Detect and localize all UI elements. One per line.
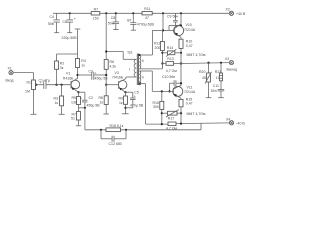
svg-text:R7: R7 (94, 8, 99, 12)
node V10 base column (162, 12, 164, 14)
ground under R1 (31, 113, 37, 115)
svg-text:3к: 3к (60, 66, 64, 70)
transformer secondary II upper (138, 30, 163, 69)
svg-text:10: 10 (216, 76, 220, 80)
svg-text:4,7 Ом: 4,7 Ом (166, 69, 178, 73)
svg-text:Выход: Выход (227, 68, 237, 72)
feedback wire down (85, 108, 106, 130)
capacitor C2 (79, 92, 101, 108)
node trimmer top (207, 62, 209, 64)
resistor R7a in top rail (91, 8, 100, 21)
svg-text:130: 130 (71, 100, 77, 104)
resistor R11 in top rail (142, 7, 152, 20)
bottom -40V rail (146, 123, 230, 124)
transformer primary I (106, 52, 136, 78)
wire V10 base drop (162, 13, 175, 31)
feedback to -40V rail riser (200, 123, 202, 130)
transformer secondary II lower (139, 71, 153, 124)
ground under R20 (206, 97, 212, 99)
ground under R7 (76, 125, 82, 127)
resistor R16 (153, 91, 164, 124)
resistor R9 (119, 92, 128, 114)
node V10 collector column (180, 12, 182, 14)
svg-text:220μ 50В: 220μ 50В (62, 36, 78, 40)
ground under C7 (131, 29, 136, 31)
wire V3 base (106, 84, 118, 86)
svg-text:+: + (40, 81, 42, 85)
node R6 column top (105, 12, 107, 14)
svg-text:50н: 50н (108, 22, 114, 26)
svg-text:C9 56н: C9 56н (167, 15, 178, 19)
terminal X4 (226, 117, 245, 125)
svg-text:50н: 50н (211, 89, 217, 93)
capacitor C3 (78, 69, 109, 80)
svg-text:ММТ 4,7Ом: ММТ 4,7Ом (187, 112, 207, 116)
svg-text:R11: R11 (144, 7, 150, 11)
svg-text:Вход: Вход (6, 79, 14, 83)
svg-text:+: + (74, 17, 76, 21)
ground under R8 (103, 113, 109, 115)
svg-text:П416Б: П416Б (63, 76, 74, 80)
resistor R10 (179, 39, 193, 48)
wire R5 bottom / feedback node (79, 107, 87, 109)
svg-text:Тр1: Тр1 (127, 50, 133, 54)
thermistor R14 (162, 46, 206, 57)
resistor R15 (V11 emitter) (179, 97, 193, 123)
output column below R10 (180, 48, 182, 85)
resistor R12 (154, 30, 164, 50)
capacitor C7 (127, 13, 155, 30)
capacitor C8 (108, 13, 119, 29)
svg-text:C10 56н: C10 56н (162, 75, 175, 79)
svg-text:R6: R6 (110, 60, 115, 64)
svg-text:II: II (142, 59, 144, 63)
svg-text:1к: 1к (55, 101, 59, 105)
svg-text:II: II (142, 76, 144, 80)
node V1 emitter (77, 91, 79, 93)
transistor V11 (173, 85, 196, 99)
svg-text:+: + (134, 94, 136, 98)
inductor/resistor R21 box (215, 63, 223, 90)
node V3 emitter (124, 91, 126, 93)
node R3 top (61, 84, 63, 86)
svg-text:V10: V10 (186, 23, 192, 27)
svg-text:R10: R10 (186, 40, 192, 44)
resistor R1 (25, 80, 36, 114)
capacitor C10 (162, 75, 182, 93)
svg-text:0,47: 0,47 (186, 102, 193, 106)
node L/R network top (220, 62, 222, 64)
svg-text:C2: C2 (89, 96, 94, 100)
ground under C11 (218, 97, 224, 99)
svg-text:47: 47 (145, 16, 149, 20)
ground under C8 (113, 29, 118, 31)
resistor R3 (54, 85, 64, 115)
svg-text:45: 45 (202, 76, 206, 80)
svg-text:200: 200 (155, 46, 161, 50)
svg-text:C4: C4 (50, 15, 55, 19)
node therm R14 right (180, 52, 182, 54)
capacitor C9 (167, 13, 182, 30)
svg-text:R8: R8 (99, 96, 104, 100)
svg-text:+: + (80, 97, 82, 101)
svg-text:V11: V11 (187, 85, 193, 89)
wire V11 base (152, 90, 173, 92)
node therm R17 right (180, 112, 182, 114)
svg-text:П214А: П214А (185, 90, 196, 94)
svg-text:X4: X4 (226, 117, 230, 121)
svg-text:R14: R14 (167, 46, 173, 50)
node V1 collector (76, 74, 78, 76)
node R2 bottom (55, 84, 57, 86)
svg-text:R20: R20 (199, 70, 205, 74)
svg-text:C6: C6 (63, 20, 68, 24)
transformer core (137, 54, 138, 86)
svg-text:51: 51 (71, 117, 75, 121)
node therm R17 left (161, 112, 163, 114)
ground under C4 (54, 32, 59, 34)
resistor R18 feedback (106, 124, 201, 131)
svg-text:150: 150 (93, 17, 99, 21)
svg-text:+: + (128, 19, 130, 23)
node rail R16 (161, 123, 163, 125)
svg-text:C11: C11 (213, 84, 219, 88)
node C8 top (115, 12, 117, 14)
resistor R2 (55, 61, 65, 85)
node therm R14 left (161, 52, 163, 54)
resistor R13 (162, 57, 181, 73)
svg-text:+40 В: +40 В (236, 12, 246, 16)
svg-text:50в: 50в (48, 22, 54, 26)
resistor R8 (99, 85, 109, 114)
resistor R22 in bottom rail (166, 122, 178, 131)
wire V3 collector to primary (125, 77, 127, 79)
node rail R15 (180, 123, 182, 125)
svg-text:X2: X2 (226, 8, 230, 12)
svg-text:0,47: 0,47 (186, 44, 193, 48)
svg-text:X1: X1 (8, 66, 12, 70)
resistor R5 (71, 92, 81, 108)
svg-text:1М: 1М (25, 90, 30, 94)
node R13 right / output (180, 62, 182, 64)
node R16 top (161, 90, 163, 92)
svg-text:1к: 1к (119, 101, 123, 105)
capacitor C5 (126, 90, 144, 107)
capacitor C6 (62, 13, 78, 40)
transistor V1 (63, 71, 80, 92)
svg-text:470μ 5В: 470μ 5В (130, 104, 144, 108)
node V3 base (105, 84, 107, 86)
svg-text:4700μ 63В: 4700μ 63В (137, 22, 155, 26)
capacitor C11 (211, 84, 224, 98)
svg-text:R1: R1 (27, 81, 32, 85)
svg-text:V1: V1 (66, 71, 70, 75)
svg-text:R21: R21 (215, 70, 221, 74)
svg-text:R17: R17 (168, 116, 174, 120)
thermistor R17 (162, 110, 206, 121)
ground under C6 (67, 32, 72, 34)
svg-text:R5: R5 (72, 96, 77, 100)
svg-text:R13: R13 (167, 57, 173, 61)
transistor V10 (174, 13, 196, 39)
svg-text:I: I (129, 67, 130, 71)
node C7 top (132, 12, 134, 14)
wire rail drop to R2/R4 (57, 29, 81, 61)
node C1 (35, 84, 37, 86)
capacitor C1 (36, 78, 72, 89)
svg-text:R3: R3 (54, 97, 59, 101)
node C6 top (69, 12, 71, 14)
trimmer R20 (199, 63, 212, 98)
node R13 left (161, 62, 163, 64)
output wire to X3 (181, 62, 230, 65)
ground under R3 (59, 113, 65, 115)
node C3 right (105, 74, 107, 76)
svg-text:R18 5,1к: R18 5,1к (110, 124, 124, 128)
svg-text:П416Б: П416Б (113, 76, 124, 80)
resistor R4 (76, 54, 86, 79)
wire R12 bottom to bias column (161, 51, 163, 69)
svg-text:C12 680: C12 680 (109, 142, 122, 146)
svg-text:1к: 1к (100, 101, 104, 105)
svg-text:R4: R4 (81, 59, 86, 63)
svg-text:−40 В: −40 В (236, 121, 246, 125)
resistor R7 (71, 108, 81, 126)
capacitor C12 parallel (101, 130, 126, 146)
svg-text:X3: X3 (225, 57, 229, 61)
svg-text:300: 300 (153, 105, 159, 109)
capacitor C4 (48, 13, 60, 32)
node feedback R left (100, 129, 102, 131)
svg-text:П214А: П214А (185, 28, 196, 32)
svg-text:4,3к: 4,3к (110, 65, 117, 69)
resistor R6 (104, 60, 116, 85)
wire base V3 from column (105, 13, 107, 59)
svg-text:ММТ 4,7Ом: ММТ 4,7Ом (187, 53, 207, 57)
transistor V3 (113, 71, 127, 92)
svg-text:C8: C8 (111, 16, 116, 20)
terminal X2 (226, 8, 246, 16)
node R9 bottom (124, 107, 126, 109)
node feedback R right (125, 129, 127, 131)
svg-text:1к: 1к (81, 64, 85, 68)
svg-text:C3: C3 (89, 69, 94, 73)
svg-text:V3: V3 (115, 71, 119, 75)
svg-text:450μ 5В: 450μ 5В (87, 104, 101, 108)
ground under R9 (122, 113, 129, 115)
terminal X3 (225, 57, 237, 72)
terminal X1 (6, 66, 14, 82)
top +40V rail (53, 12, 230, 14)
wire X1 to R1 (13, 73, 33, 80)
